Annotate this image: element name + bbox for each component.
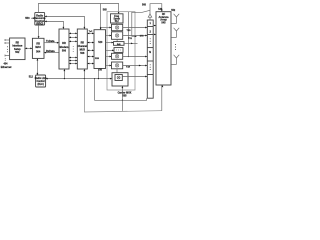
wires channel mux to filter bank [87,31,94,64]
TX wires to combiner [122,27,147,78]
interface input ticks [5,39,10,61]
wire RRC top to carrier mux synth [38,4,119,14]
box B1 [114,42,138,46]
svg-text:560: 560 [142,4,147,7]
wire channel mux down to bottom bus [84,79,161,112]
mixer A [112,24,123,30]
label 550 [25,16,35,20]
svg-text:502: 502 [15,51,20,54]
wire RxData [44,50,59,53]
svg-text:Synth: Synth [114,18,121,21]
box B2 [114,48,123,53]
svg-text:N: N [149,51,151,54]
block RF antenna array [156,12,171,85]
wire RRC branch down to filter block [100,4,112,30]
block RR Interface Setup [10,38,25,60]
antenna 2 [171,28,179,38]
antenna N [171,55,179,65]
block RX chain [112,73,128,86]
container Carrier MUX [103,9,135,97]
svg-text:520: 520 [98,41,103,44]
svg-text:506: 506 [62,49,67,52]
wire RRC right to modem top [45,21,65,30]
wire 575 feedback loop [132,10,150,37]
svg-text:504: 504 [36,51,41,54]
mixer B [112,32,123,42]
svg-text:RR: RR [62,42,66,45]
svg-text:MAC: MAC [35,46,41,49]
LO distribution vertical [128,12,129,57]
wire TxData [44,40,59,44]
svg-text:Ethernet: Ethernet [1,65,12,69]
mixer C [112,53,123,59]
svg-text:RR: RR [36,42,40,45]
svg-text:Modem: Modem [60,46,70,49]
svg-text:512: 512 [29,75,34,78]
svg-text:550: 550 [25,16,30,20]
wire RX input up from bus [94,78,147,111]
wire combiner up through amp to RF [142,4,163,20]
antenna 1 [171,10,179,24]
mixer D [112,62,123,73]
wires filter bank to mixer column [106,35,115,67]
port wires combiner to RF [153,25,156,36]
wire RF down to bus [162,85,164,111]
block RR MAC [32,38,44,58]
svg-text:RxData: RxData [46,50,55,53]
svg-text:Control: Control [37,80,46,83]
block RLC (Radio Link Control) [35,75,47,87]
wire MAC to RLC [37,58,39,75]
dots between antennas [174,44,177,50]
svg-text:Radio Link: Radio Link [35,78,47,80]
svg-text:TxN: TxN [126,66,131,68]
block filter bank [94,30,106,72]
label Ethernet [1,62,12,69]
block RR Modem [59,29,69,69]
svg-text:(RLC): (RLC) [37,84,43,86]
block RR Channel MUX [77,29,87,69]
wire interface to MAC double arrow [25,48,32,50]
svg-text:508: 508 [80,52,85,55]
svg-text:505: 505 [123,95,128,98]
svg-text:(RRC): (RRC) [36,22,43,25]
wire RRC bottom to MAC top [38,25,40,38]
wire RRC right to channel mux top [45,16,86,30]
svg-text:545: 545 [161,21,166,24]
block RRC (Radio Resource Control) [34,12,46,25]
block combiner column [147,20,153,98]
block freq synth [111,14,124,24]
wire RLC line [46,69,112,80]
svg-text:TxData: TxData [46,40,55,43]
wires modem to channel mux [69,33,77,65]
